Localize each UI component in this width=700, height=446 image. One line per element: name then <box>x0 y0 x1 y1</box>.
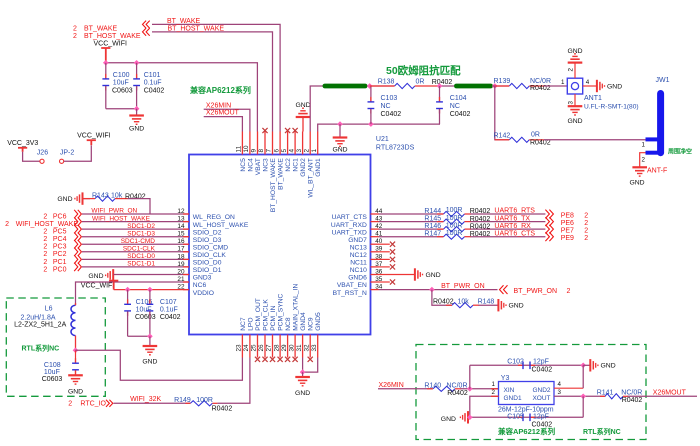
svg-text:19: 19 <box>177 261 185 268</box>
svg-text:R145: R145 <box>424 215 441 222</box>
wire net SDC1-D3 pin 15 <box>82 236 189 238</box>
svg-text:12pF: 12pF <box>533 413 549 420</box>
svg-text:PC0: PC0 <box>53 266 67 273</box>
svg-text:X26MOUT: X26MOUT <box>653 390 687 397</box>
svg-text:GND: GND <box>607 83 622 90</box>
wire X26MOUT to pin 11 <box>204 117 243 132</box>
svg-text:GND: GND <box>567 48 582 55</box>
ground R148 <box>498 299 506 311</box>
svg-text:BT_HOST_WAKE: BT_HOST_WAKE <box>168 25 225 32</box>
svg-text:LPO: LPO <box>247 317 254 330</box>
svg-text:4: 4 <box>558 381 562 388</box>
wire VCC_WIFI rail to pin 9 VBAT <box>106 63 258 132</box>
pin 15 stub <box>183 236 189 238</box>
capacitor C105 symbol <box>518 416 535 418</box>
svg-text:0R: 0R <box>531 132 540 139</box>
svg-text:UART_RXD: UART_RXD <box>331 222 367 229</box>
svg-text:J26: J26 <box>37 150 48 157</box>
svg-text:PCM_SYNC: PCM_SYNC <box>278 293 285 330</box>
pin 39 stub <box>371 251 379 253</box>
svg-text:PC3: PC3 <box>53 244 67 251</box>
svg-text:10uF: 10uF <box>113 79 129 86</box>
svg-text:SDC1-D0: SDC1-D0 <box>127 253 155 260</box>
chevron PC4 <box>74 233 81 241</box>
resistor R147 <box>444 234 465 239</box>
wire pin 2 WL_BT_ANT to RF <box>310 86 323 132</box>
svg-text:PE7: PE7 <box>561 227 574 234</box>
resistor R141 <box>605 394 623 399</box>
no-connect X pin 39 <box>390 249 395 254</box>
no-connect X pin 32 <box>308 357 313 362</box>
pin 19 stub <box>183 266 189 268</box>
svg-text:PCM_OUT: PCM_OUT <box>255 298 262 331</box>
svg-text:GND: GND <box>567 118 582 125</box>
junction XIN/C102 <box>467 386 473 392</box>
junction L6/C108 <box>73 347 79 353</box>
svg-text:SDC1-D3: SDC1-D3 <box>127 230 155 237</box>
wire R140 to XIN <box>461 388 499 390</box>
svg-text:GND: GND <box>601 363 616 370</box>
svg-text:R144: R144 <box>424 208 441 215</box>
wire pin 34 BT_RST_N <box>379 289 498 291</box>
resistor R146 <box>444 227 465 232</box>
wire net BT_HOST_WAKE to pin 7 <box>152 32 273 132</box>
chevron PE9 <box>545 232 553 241</box>
pin 22 stub <box>183 289 189 291</box>
svg-text:R149: R149 <box>174 397 191 404</box>
svg-text:2: 2 <box>568 68 575 72</box>
svg-text:VBAT: VBAT <box>255 158 262 175</box>
wire pin 36 GND6 <box>379 274 415 276</box>
svg-text:22: 22 <box>177 284 185 291</box>
svg-text:0.1uF: 0.1uF <box>160 306 178 313</box>
wire gnd to pin 20 <box>113 274 189 276</box>
svg-text:6: 6 <box>273 149 280 153</box>
svg-text:SDIO_D0: SDIO_D0 <box>193 260 222 267</box>
pin 7 BT_HOST_WAKE stub <box>272 132 274 155</box>
svg-text:1: 1 <box>561 79 565 86</box>
svg-text:WL_REG_ON: WL_REG_ON <box>193 214 235 221</box>
svg-text:ANT-F: ANT-F <box>647 168 667 175</box>
pin 5 NC2 stub <box>287 132 289 155</box>
pin 2 WL_BT_ANT stub <box>309 132 311 155</box>
pin 1 GND1 stub <box>317 132 319 155</box>
svg-text:29: 29 <box>281 344 288 352</box>
junction bottom gnd <box>300 369 306 375</box>
svg-text:L2-ZX2_5H1_2A: L2-ZX2_5H1_2A <box>14 321 66 328</box>
op IC U21 RTL8723DS body <box>189 155 371 335</box>
no-connect X pin 37 <box>390 264 395 269</box>
svg-text:GND1: GND1 <box>504 395 522 402</box>
no-connect X pin 40 <box>390 242 395 247</box>
svg-text:2: 2 <box>43 213 47 220</box>
ground GND6 <box>415 268 423 280</box>
wire R142 to JW1 <box>544 139 646 141</box>
wire L6 to pin 23 NC7 <box>76 350 243 380</box>
svg-text:VCC_3V3: VCC_3V3 <box>7 140 38 147</box>
svg-text:NC: NC <box>450 103 460 110</box>
connector ANT1 body <box>567 78 582 94</box>
junction C107 gnd <box>147 333 153 339</box>
svg-text:GND: GND <box>426 272 441 279</box>
wire VCC_3V3 to J26 pin <box>23 152 40 162</box>
wire X26MIN to R140 <box>378 388 432 390</box>
pin 21 stub <box>183 281 189 283</box>
svg-text:C107: C107 <box>160 299 177 306</box>
svg-text:R0402: R0402 <box>433 299 454 306</box>
svg-text:BT_HOST_WAKE: BT_HOST_WAKE <box>84 33 141 40</box>
svg-text:3: 3 <box>558 389 562 396</box>
svg-text:GND1: GND1 <box>315 158 322 177</box>
junction C103 top <box>367 83 373 89</box>
ground C106/C107 <box>149 336 151 346</box>
junction C106 <box>125 287 131 293</box>
svg-text:NC/0R: NC/0R <box>621 389 642 396</box>
wire XOUT row <box>554 395 606 397</box>
svg-text:SDC1-CMD: SDC1-CMD <box>121 238 156 245</box>
pin 8 NC3 stub <box>264 132 266 155</box>
chevron PC3 <box>74 240 81 248</box>
svg-text:25: 25 <box>251 344 258 352</box>
ground C102 <box>583 364 590 366</box>
pin 16 stub <box>183 243 189 245</box>
svg-text:PCM_IN: PCM_IN <box>270 305 277 330</box>
svg-text:周围净空: 周围净空 <box>668 148 692 156</box>
wire gnd to pin 21 <box>113 281 189 283</box>
svg-text:NC1: NC1 <box>293 158 300 172</box>
svg-text:2: 2 <box>73 26 77 33</box>
svg-text:10k: 10k <box>111 193 123 200</box>
svg-text:100R: 100R <box>196 397 213 404</box>
wire net SDC1-CMD pin 16 <box>82 243 189 245</box>
svg-text:C0402: C0402 <box>532 367 553 374</box>
svg-text:8: 8 <box>258 149 265 153</box>
svg-text:WIFI_HOST_WAKE: WIFI_HOST_WAKE <box>16 221 79 228</box>
resistor R144 <box>444 211 465 216</box>
svg-text:SDIO_CLK: SDIO_CLK <box>193 252 227 259</box>
wire GND1 elbow <box>470 396 499 417</box>
wire pin 31 GND4 <box>302 358 304 373</box>
svg-text:X26MIN: X26MIN <box>206 102 231 109</box>
svg-text:NC4: NC4 <box>247 158 254 172</box>
svg-text:0.1uF: 0.1uF <box>144 79 162 86</box>
no-connect X pin 35 <box>390 279 395 284</box>
chevron PC0 <box>74 263 81 271</box>
no-connect X pin 38 <box>390 257 395 262</box>
wire pin 1 GND rail <box>318 124 440 131</box>
svg-text:2: 2 <box>642 156 646 163</box>
wire C102 row <box>470 364 583 366</box>
svg-text:3: 3 <box>296 149 303 153</box>
svg-text:2: 2 <box>43 251 47 258</box>
svg-text:BT_WAKE: BT_WAKE <box>278 158 285 190</box>
resistor R140 <box>433 386 455 391</box>
svg-text:C100: C100 <box>113 72 130 79</box>
svg-text:4: 4 <box>288 149 295 153</box>
crystal Y3 body <box>499 382 555 405</box>
JW1 pin 2 wire <box>640 153 646 168</box>
svg-text:BT_RST_N: BT_RST_N <box>333 290 367 297</box>
svg-text:GND: GND <box>509 303 524 310</box>
svg-text:GND7: GND7 <box>348 237 367 244</box>
svg-text:NC9: NC9 <box>308 317 315 331</box>
wire net WIFI_HOST_WAKE pin 13 <box>82 221 189 223</box>
svg-text:15: 15 <box>177 231 185 238</box>
chevron PC2 <box>74 248 81 256</box>
wire net SDC1-CLK pin 17 <box>82 251 189 253</box>
junction XOUT <box>580 393 586 399</box>
svg-text:100R: 100R <box>446 222 463 229</box>
svg-text:SDC1-CLK: SDC1-CLK <box>123 246 156 253</box>
wire R143 to WIFI_PWR_ON <box>128 199 151 214</box>
svg-text:SDC1-D1: SDC1-D1 <box>127 261 155 268</box>
pin 33 GND5 stub <box>317 335 319 358</box>
svg-text:GND: GND <box>57 196 72 203</box>
svg-text:GND: GND <box>129 126 144 133</box>
resistor R139 <box>509 83 529 88</box>
svg-text:17: 17 <box>177 246 185 253</box>
junction C104 top <box>437 83 443 89</box>
wire net WIFI_PWR_ON pin 12 <box>82 213 189 215</box>
svg-text:R0402: R0402 <box>432 79 453 86</box>
wire UART6_TX left <box>379 221 444 223</box>
svg-text:R140: R140 <box>424 382 441 389</box>
chevron PC6 <box>74 210 81 218</box>
svg-text:0R: 0R <box>416 78 425 85</box>
svg-text:GND: GND <box>295 390 310 397</box>
svg-text:R0402: R0402 <box>622 397 643 404</box>
wire UART6_RX left <box>379 228 444 230</box>
chevron PE8 <box>545 210 553 219</box>
svg-text:20: 20 <box>177 268 185 275</box>
svg-text:C0402: C0402 <box>381 111 402 118</box>
wire XOUT to C105 <box>582 396 584 417</box>
svg-text:24: 24 <box>243 344 250 352</box>
svg-text:30: 30 <box>288 344 295 352</box>
svg-text:R143: R143 <box>92 193 109 200</box>
svg-text:13: 13 <box>177 216 185 223</box>
pin 11 NC5 stub <box>241 132 243 155</box>
resistor R148 <box>452 303 473 308</box>
no-connect X pin 28 <box>278 357 283 362</box>
svg-text:2: 2 <box>303 149 310 153</box>
svg-text:11: 11 <box>236 145 243 152</box>
junction at C101 <box>134 60 140 66</box>
no-connect X pin 5 <box>285 128 290 133</box>
svg-text:C0402: C0402 <box>144 88 165 95</box>
svg-text:兼容AP6212系列: 兼容AP6212系列 <box>189 85 251 95</box>
wire R148 to gnd <box>479 304 499 306</box>
ground pins 20/21 <box>106 269 114 281</box>
svg-text:SDIO_D1: SDIO_D1 <box>193 267 222 274</box>
svg-text:R142: R142 <box>494 132 511 139</box>
svg-text:7: 7 <box>266 149 273 153</box>
svg-text:R0402: R0402 <box>212 405 233 412</box>
no-connect X pin 8 <box>262 128 267 133</box>
ANT1 pin 2 wire <box>574 63 576 78</box>
pin 44 stub <box>371 213 379 215</box>
svg-text:PC5: PC5 <box>53 229 67 236</box>
svg-text:C104: C104 <box>450 95 467 102</box>
wire UART6_TX right <box>471 221 546 223</box>
svg-text:JW1: JW1 <box>656 77 670 84</box>
svg-text:10: 10 <box>243 145 250 153</box>
svg-text:RTC_IO: RTC_IO <box>80 400 106 407</box>
ANT1 pin 4 wire <box>583 85 597 87</box>
svg-text:ANT1: ANT1 <box>584 95 602 102</box>
ground ANT1 pin 3 <box>568 106 583 115</box>
svg-text:NC6: NC6 <box>193 282 207 289</box>
svg-text:L6: L6 <box>45 305 53 312</box>
svg-text:GND: GND <box>629 179 644 186</box>
svg-text:NC/0R: NC/0R <box>530 78 551 85</box>
svg-text:R146: R146 <box>424 223 441 230</box>
svg-text:R138: R138 <box>378 78 395 85</box>
svg-text:18: 18 <box>177 253 185 260</box>
svg-text:RTL系列NC: RTL系列NC <box>22 343 60 352</box>
svg-text:R139: R139 <box>494 78 511 85</box>
svg-text:UART_TXD: UART_TXD <box>332 229 367 236</box>
svg-text:JP-2: JP-2 <box>60 150 75 157</box>
pin 13 stub <box>183 221 189 223</box>
svg-text:2: 2 <box>73 33 77 40</box>
svg-text:23: 23 <box>236 344 243 352</box>
svg-text:GND: GND <box>441 416 456 423</box>
pin 25 PCM_OUT stub <box>257 335 259 358</box>
svg-text:WIFI_HOST_WAKE: WIFI_HOST_WAKE <box>92 215 151 222</box>
svg-text:VDDIO: VDDIO <box>193 290 214 297</box>
wire C105 row <box>468 416 583 418</box>
svg-text:BT_WAKE: BT_WAKE <box>84 26 118 33</box>
svg-text:GND: GND <box>332 147 347 154</box>
svg-text:C101: C101 <box>144 72 161 79</box>
svg-text:GND5: GND5 <box>315 312 322 331</box>
svg-text:31: 31 <box>296 344 303 352</box>
pin 26 PCM_CLK stub <box>264 335 266 358</box>
resistor R143 <box>95 196 115 201</box>
svg-text:NC3: NC3 <box>262 158 269 172</box>
pin 6 BT_WAKE stub <box>279 132 281 155</box>
wire net SDC1-D1 pin 19 <box>82 266 189 268</box>
svg-text:NC2: NC2 <box>285 158 292 172</box>
svg-text:2: 2 <box>68 400 72 407</box>
svg-text:WL_BT_ANT: WL_BT_ANT <box>308 158 315 197</box>
svg-text:9: 9 <box>251 148 258 152</box>
svg-text:12pF: 12pF <box>533 358 549 365</box>
capacitor C100 symbol <box>105 63 107 79</box>
svg-text:32: 32 <box>303 344 310 352</box>
svg-text:UART6_CTS: UART6_CTS <box>494 230 535 237</box>
pin 28 PCM_SYNC stub <box>279 335 281 358</box>
junction C103 bottom <box>368 121 374 127</box>
wire gnd to R143 <box>83 198 91 200</box>
svg-text:VCC_WIFI: VCC_WIFI <box>77 132 111 139</box>
svg-text:WL_HOST_WAKE: WL_HOST_WAKE <box>193 222 249 229</box>
capacitor C103 symbol <box>370 86 372 102</box>
chevron PC5 <box>74 225 81 233</box>
wire cap bottoms <box>106 108 137 110</box>
wire R139 to ANT1 <box>544 85 568 87</box>
no-connect X pin 30 <box>293 357 298 362</box>
wire to R148 <box>432 290 452 306</box>
pin 36 stub <box>371 274 379 276</box>
pin 3 GND2 stub <box>302 132 304 155</box>
pin 35 stub <box>371 281 379 283</box>
svg-text:PC2: PC2 <box>53 251 67 258</box>
ground rail GND <box>339 124 341 137</box>
svg-text:10uF: 10uF <box>44 369 60 376</box>
svg-text:U21: U21 <box>376 136 389 143</box>
svg-text:NC12: NC12 <box>350 252 367 259</box>
svg-text:2: 2 <box>43 236 47 243</box>
capacitor C107 symbol <box>149 290 151 304</box>
wire C106/C107 bottoms <box>128 335 150 337</box>
svg-text:PC1: PC1 <box>53 259 67 266</box>
svg-text:GND2: GND2 <box>300 158 307 177</box>
wire R149 to pin 24 LPO <box>217 358 250 404</box>
pin 40 stub <box>371 243 379 245</box>
wire UART6_RX right <box>471 228 546 230</box>
svg-text:C0402: C0402 <box>160 314 181 321</box>
pin circle JP-2 <box>60 159 64 163</box>
svg-text:GND4: GND4 <box>300 312 307 331</box>
svg-text:NC13: NC13 <box>350 244 367 251</box>
svg-text:PC4: PC4 <box>53 236 67 243</box>
svg-text:XOUT: XOUT <box>532 395 550 402</box>
svg-text:4: 4 <box>586 79 590 86</box>
svg-text:100R: 100R <box>446 215 463 222</box>
wire R138 to bar2 <box>440 85 454 87</box>
ground R143 <box>75 192 83 204</box>
wire UART6_CTS right <box>471 236 546 238</box>
svg-text:PE8: PE8 <box>561 212 574 219</box>
svg-text:兼容AP6212系列: 兼容AP6212系列 <box>497 426 556 436</box>
svg-text:2: 2 <box>43 266 47 273</box>
svg-text:27: 27 <box>266 344 273 352</box>
wire net SDC1-D0 pin 18 <box>82 258 189 260</box>
ground ANT1 pin 4 <box>597 80 605 92</box>
svg-text:28: 28 <box>273 344 280 352</box>
chevron BT_WAKE <box>143 21 150 29</box>
capacitor C104 symbol <box>439 86 441 102</box>
pin 17 stub <box>183 251 189 253</box>
pin 9 VBAT stub <box>257 132 259 155</box>
pin 42 stub <box>371 228 379 230</box>
pin 27 PCM_IN stub <box>272 335 274 358</box>
capacitor C102 symbol <box>518 364 535 366</box>
svg-text:2: 2 <box>492 389 496 396</box>
pin 4 NC1 stub <box>294 132 296 155</box>
svg-text:BT_WAKE: BT_WAKE <box>167 18 201 25</box>
svg-text:MAIN_XTAL_IN: MAIN_XTAL_IN <box>293 284 300 331</box>
wire UART6_RTS right <box>471 213 546 215</box>
wire UART6_CTS left <box>379 236 444 238</box>
resistor R138 <box>395 83 415 88</box>
svg-text:NC: NC <box>381 103 391 110</box>
wire RTC_IO to R149 <box>114 402 191 404</box>
resistor R149 <box>190 401 212 406</box>
svg-text:SDC1-D2: SDC1-D2 <box>127 223 155 230</box>
pin 12 stub <box>183 213 189 215</box>
svg-text:2: 2 <box>567 288 571 295</box>
svg-text:100R: 100R <box>446 230 463 237</box>
RF microstrip bar 1 <box>323 84 368 89</box>
wire net BT_WAKE to pin 6 <box>152 24 280 131</box>
svg-text:UART_CTS: UART_CTS <box>332 214 368 221</box>
pin circle J26 <box>40 159 44 163</box>
svg-text:WIFI_32K: WIFI_32K <box>130 396 161 403</box>
pin 14 stub <box>183 228 189 230</box>
